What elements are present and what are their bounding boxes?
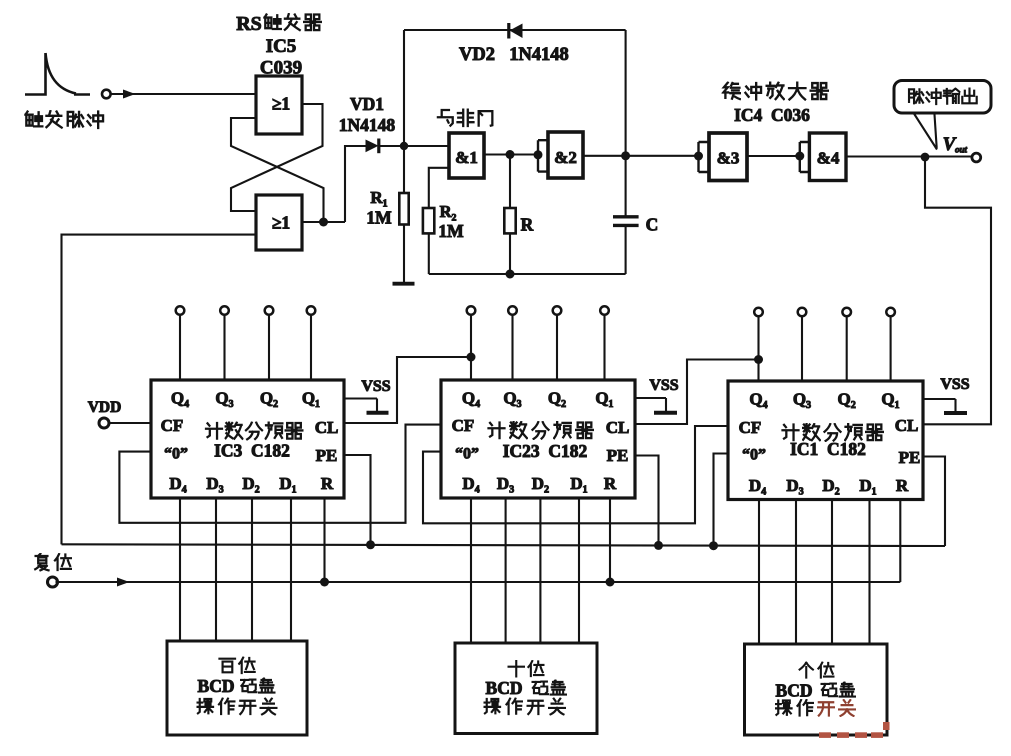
counter-divider IC3 C182 <box>151 380 344 498</box>
svg-text:D₁: D₁ <box>570 474 587 493</box>
svg-text:Q₃: Q₃ <box>793 390 811 409</box>
svg-text:≥1: ≥1 <box>272 94 290 114</box>
svg-text:Q₁: Q₁ <box>302 389 320 408</box>
NAND gate G4 (&2) <box>548 132 583 178</box>
wire preset enable bus <box>62 544 946 546</box>
label R1 1M <box>366 188 392 228</box>
wire reset bus <box>56 581 901 583</box>
label R <box>521 215 534 235</box>
svg-text:Q₂: Q₂ <box>260 389 278 408</box>
wire IC3 PE down <box>344 455 375 549</box>
wire Vout to IC1 CL <box>923 157 991 424</box>
callout pointer <box>914 113 937 150</box>
wire input to gate G1 <box>111 93 256 95</box>
svg-text:IC4 C036: IC4 C036 <box>734 105 810 125</box>
diode VD1 <box>366 139 405 154</box>
wire G5 to G6 <box>747 152 804 161</box>
gate G4 input tie bracket <box>538 140 548 171</box>
label R2 1M <box>438 202 464 241</box>
svg-text:Q₄: Q₄ <box>749 390 767 409</box>
output terminal <box>972 153 981 162</box>
wire G1 output to G2 input (cross coupling) <box>231 104 323 211</box>
wire IC23 "0" to IC1 CF <box>423 426 728 523</box>
svg-text:CF: CF <box>452 416 475 435</box>
svg-text:CL: CL <box>315 418 339 437</box>
svg-text:Q₂: Q₂ <box>548 389 566 408</box>
svg-text:“0”: “0” <box>742 447 766 464</box>
svg-text:D₁: D₁ <box>279 474 296 493</box>
NAND gate G3 (&1) <box>449 133 484 178</box>
VSS ground of IC23 <box>635 377 679 413</box>
BCD switch box 百位 <box>167 641 307 735</box>
VSS ground of IC3 <box>344 378 391 413</box>
wire IC1 Q4 to IC23 CL <box>635 355 763 424</box>
svg-text:PE: PE <box>607 446 629 465</box>
svg-text:VD2: VD2 <box>459 45 495 65</box>
svg-text:BCD: BCD <box>486 678 523 698</box>
svg-text:1M: 1M <box>366 208 392 228</box>
wire IC3 R to reset <box>320 498 329 587</box>
input terminal <box>102 90 111 99</box>
svg-text:&4: &4 <box>817 149 840 168</box>
red watermark dashes <box>819 722 890 738</box>
wire G3 lower input to R2 <box>429 168 449 208</box>
NAND gate G5 (&3) <box>709 133 747 181</box>
node Vout junction <box>921 153 930 162</box>
svg-text:CF: CF <box>739 418 762 437</box>
svg-text:IC5: IC5 <box>266 36 297 57</box>
wire G3 output to G4 <box>484 150 543 159</box>
wire G2 lower input feedback <box>62 235 257 545</box>
svg-text:PE: PE <box>899 448 921 467</box>
NAND gate G6 (&4) <box>809 133 846 181</box>
svg-text:D₂: D₂ <box>532 474 549 493</box>
svg-text:C: C <box>646 215 659 235</box>
svg-text:IC1 C182: IC1 C182 <box>790 439 866 459</box>
input arrow <box>123 90 136 99</box>
label VD1 1N4148 <box>339 94 396 135</box>
svg-text:out: out <box>955 145 968 155</box>
test point terminals Q4-Q1 of IC23 <box>467 306 609 380</box>
svg-text:&1: &1 <box>455 148 478 167</box>
wire top loop right vertical <box>625 30 627 156</box>
svg-text:Q₂: Q₂ <box>838 390 856 409</box>
NOR gate G2 (RS latch) <box>256 195 302 250</box>
svg-text:D₄: D₄ <box>462 474 479 493</box>
svg-text:BCD: BCD <box>198 676 235 696</box>
label 复位 <box>35 554 71 571</box>
counter-divider IC23 C182 <box>441 380 635 498</box>
wire G2 output to G1 input (cross coupling) <box>231 118 324 222</box>
wire G4 output <box>583 151 699 160</box>
svg-text:&2: &2 <box>554 148 577 167</box>
svg-text:R: R <box>321 474 334 493</box>
svg-text:R: R <box>896 476 909 495</box>
test point terminals Q4-Q1 of IC1 <box>754 308 895 381</box>
svg-text:CL: CL <box>606 418 630 437</box>
capacitor C <box>613 156 639 274</box>
wire IC23 PE down <box>635 456 663 550</box>
wire IC1 R to reset <box>899 500 901 583</box>
node VD1/R1 junction <box>400 142 408 150</box>
svg-text:Q₁: Q₁ <box>881 390 899 409</box>
wire IC23 Q4 to IC3 CL <box>344 353 476 424</box>
svg-text:D₄: D₄ <box>749 476 766 495</box>
wire IC23 R to reset <box>606 498 615 587</box>
test point terminals Q4-Q1 of IC3 <box>176 306 316 380</box>
svg-text:D₂: D₂ <box>242 474 259 493</box>
svg-text:CL: CL <box>895 416 919 435</box>
svg-text:“0”: “0” <box>455 446 479 463</box>
svg-text:1N4148: 1N4148 <box>509 45 569 65</box>
resistor R2 <box>423 208 434 274</box>
wire IC1 PE down <box>923 457 945 547</box>
svg-text:“0”: “0” <box>164 446 188 463</box>
svg-text:PE: PE <box>316 446 338 465</box>
svg-text:Q₄: Q₄ <box>462 389 480 408</box>
label Vout <box>943 134 968 155</box>
svg-text:&3: &3 <box>717 149 740 168</box>
callout 脉冲输出 <box>894 81 991 114</box>
svg-text:IC3 C182: IC3 C182 <box>214 441 290 461</box>
wires IC23 D4-D1 to switch box <box>471 498 579 643</box>
svg-text:Q₁: Q₁ <box>595 389 613 408</box>
svg-text:R: R <box>604 474 617 493</box>
BCD switch box 个位 <box>745 644 888 735</box>
wire timing bottom <box>429 270 626 279</box>
svg-text:VSS: VSS <box>649 377 678 394</box>
label VD2 1N4148 <box>459 45 569 65</box>
svg-text:Q₄: Q₄ <box>171 389 189 408</box>
svg-text:VD1: VD1 <box>350 94 384 114</box>
svg-text:CF: CF <box>161 416 184 435</box>
VDD terminal <box>88 399 151 428</box>
svg-text:D₄: D₄ <box>169 474 186 493</box>
svg-text:IC23 C182: IC23 C182 <box>503 441 588 461</box>
label 缓冲放大器 IC4 C036 <box>723 83 827 125</box>
svg-text:VSS: VSS <box>940 376 969 393</box>
svg-text:1M: 1M <box>438 221 464 241</box>
wire top loop horizontal <box>404 29 626 31</box>
gate G6 input tie bracket <box>800 142 810 172</box>
svg-text:R₁: R₁ <box>370 188 387 207</box>
svg-text:D₃: D₃ <box>786 476 803 495</box>
svg-text:Q₃: Q₃ <box>503 389 521 408</box>
svg-text:BCD: BCD <box>776 681 813 701</box>
resistor R1 <box>399 146 408 284</box>
BCD switch box 十位 <box>455 643 597 734</box>
svg-text:RS: RS <box>236 13 262 35</box>
label 与非门 <box>438 110 492 126</box>
svg-text:VDD: VDD <box>88 399 122 416</box>
svg-text:D₁: D₁ <box>859 476 876 495</box>
wire top loop left vertical <box>403 30 405 146</box>
diode VD2 <box>509 23 523 39</box>
wire VD1 junction to G3 input <box>404 145 449 147</box>
counter-divider IC1 C182 <box>728 381 923 500</box>
NOR gate G1 (RS latch) <box>256 76 302 134</box>
ground <box>393 282 415 286</box>
svg-text:D₂: D₂ <box>822 476 839 495</box>
trigger pulse waveform <box>25 53 90 95</box>
label C <box>646 215 659 235</box>
svg-text:Q₃: Q₃ <box>215 389 233 408</box>
reset arrow <box>117 578 130 587</box>
VSS ground of IC1 <box>923 376 970 413</box>
svg-text:R: R <box>521 215 534 235</box>
svg-text:VSS: VSS <box>361 378 390 395</box>
svg-text:1N4148: 1N4148 <box>339 115 396 135</box>
wires IC1 D4-D1 to switch box <box>759 500 870 645</box>
svg-text:D₃: D₃ <box>497 474 514 493</box>
wire G2 output to VD1 <box>302 146 366 227</box>
svg-text:R₂: R₂ <box>440 202 457 221</box>
svg-text:D₃: D₃ <box>206 474 223 493</box>
resistor R <box>504 155 515 275</box>
svg-text:≥1: ≥1 <box>272 213 290 233</box>
label 触发脉冲 <box>26 111 103 128</box>
wire G6 output to Vout <box>846 155 972 157</box>
gate G5 input tie bracket <box>694 142 709 172</box>
wire IC1 "0" to PE line <box>709 454 728 551</box>
wires IC3 D4-D1 to switch box <box>180 498 291 641</box>
wire IC3 "0" to IC23 CF <box>119 425 441 523</box>
reset terminal <box>48 577 58 587</box>
label RS触发器 IC5 C039 <box>236 13 321 79</box>
